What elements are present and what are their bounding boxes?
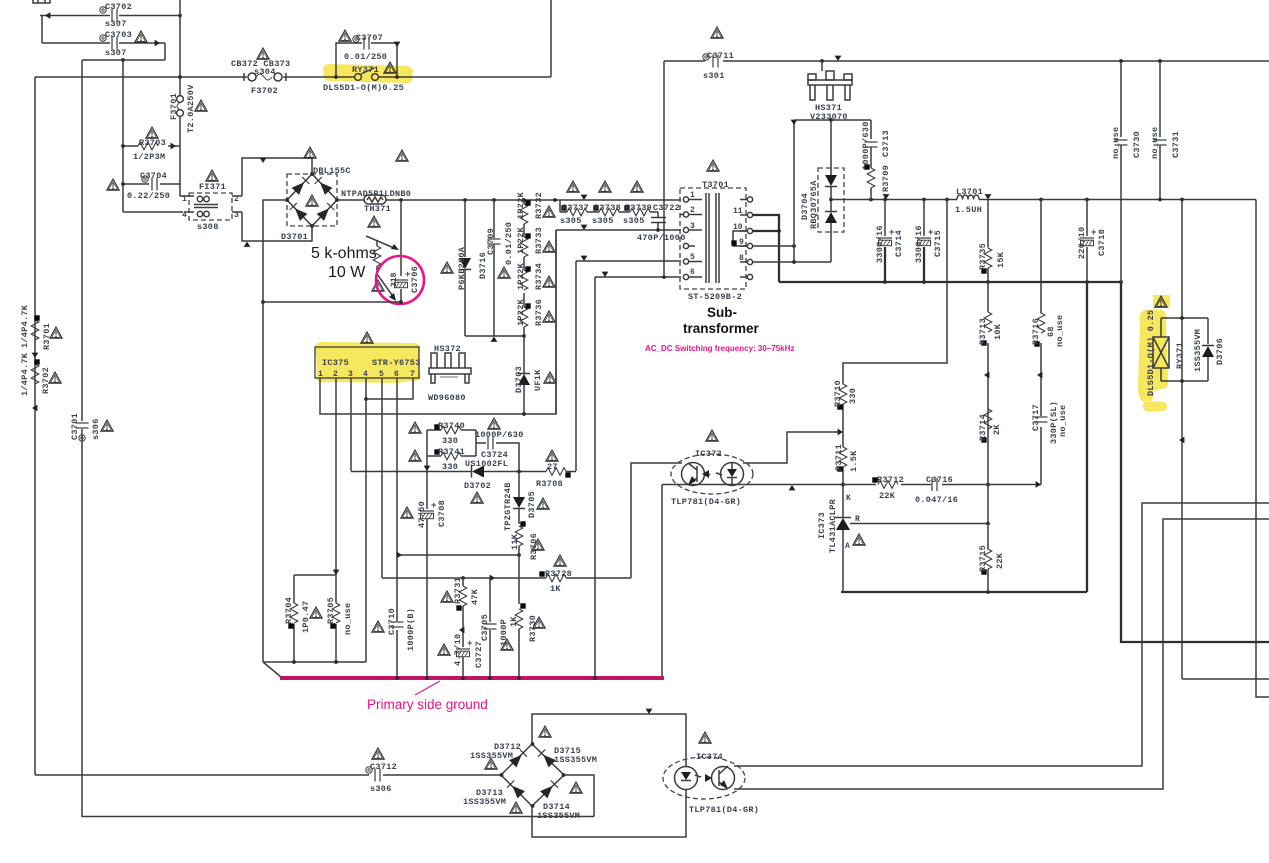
svg-text:s306: s306 (91, 418, 101, 440)
diode D3706 1SS355VM (1202, 346, 1214, 357)
svg-text:RY371: RY371 (1175, 342, 1185, 369)
wire bridge DC- to x263 rail down (263, 200, 287, 662)
wire bridge2 top loop y714 (532, 714, 686, 767)
svg-text:s305: s305 (560, 216, 582, 226)
svg-text:C3707: C3707 (356, 33, 383, 43)
wire y775 to C3712 (35, 774, 501, 776)
capacitor C3730 no_use (1120, 61, 1122, 137)
svg-text:TH371: TH371 (364, 204, 391, 214)
capacitor C3718 (1086, 200, 1088, 283)
wire pin11 pin10 to thick rail (753, 215, 779, 282)
svg-text:R3737: R3737 (562, 203, 589, 213)
svg-text:C3708: C3708 (437, 500, 447, 527)
svg-text:FI371: FI371 (199, 182, 226, 192)
svg-text:R3733: R3733 (534, 227, 544, 254)
svg-text:7: 7 (410, 370, 415, 379)
fuse F3701 (177, 96, 184, 117)
svg-text:no_use: no_use (1111, 127, 1121, 159)
capacitor C3727 (456, 639, 472, 657)
svg-text:C3716: C3716 (926, 475, 953, 485)
svg-text:TLP781(D4-GR): TLP781(D4-GR) (689, 805, 759, 815)
wire relay out y679 (1182, 678, 1269, 680)
svg-text:8: 8 (739, 254, 744, 263)
resistor R3740 (427, 429, 476, 431)
capacitor C3708 (426, 472, 428, 679)
svg-text:R3739: R3739 (625, 203, 652, 213)
capacitor C3731 no_use (1159, 61, 1161, 199)
svg-text:1/4P4.7K: 1/4P4.7K (20, 304, 30, 348)
svg-text:R3728: R3728 (545, 569, 572, 579)
wire y302 (263, 301, 401, 303)
svg-text:NTPAD5R1LDNB0: NTPAD5R1LDNB0 (341, 189, 411, 199)
svg-text:1/4P4.7K: 1/4P4.7K (20, 352, 30, 396)
svg-text:IC373: IC373 (817, 512, 827, 539)
svg-text:US1002FL: US1002FL (465, 459, 508, 469)
svg-text:1SS355VM: 1SS355VM (537, 811, 580, 821)
svg-text:TPZGTR24B: TPZGTR24B (503, 482, 513, 531)
heatsink HS371 (821, 61, 823, 71)
opto coupler IC374 TLP781 (663, 757, 745, 799)
svg-text:220/10: 220/10 (1077, 227, 1087, 259)
T3701 pin 1 (683, 197, 702, 202)
svg-text:C3701: C3701 (70, 413, 80, 440)
capacitor C3705 (489, 578, 491, 678)
capacitor C3722 (651, 218, 666, 223)
thermistor TH371 (337, 199, 681, 201)
resistor R3702 (31, 364, 39, 384)
svg-text:C3715: C3715 (933, 230, 943, 257)
wire RY371 riser x551 (550, 0, 552, 77)
svg-text:R3711: R3711 (834, 444, 844, 471)
svg-text:V233070: V233070 (810, 112, 848, 122)
svg-text:D3705: D3705 (527, 491, 537, 518)
resistor R3715 (987, 485, 989, 593)
svg-text:IC372: IC372 (695, 449, 722, 459)
svg-text:R3702: R3702 (41, 367, 51, 394)
svg-text:R3731: R3731 (453, 577, 463, 604)
svg-text:470P/1000: 470P/1000 (637, 233, 686, 243)
svg-text:4: 4 (182, 211, 187, 220)
wire R3710 tap x947 (843, 200, 947, 385)
svg-text:C3722: C3722 (653, 203, 680, 213)
svg-text:C3727: C3727 (474, 641, 484, 668)
svg-text:K: K (846, 494, 851, 503)
T3701 pin 6 (683, 274, 702, 279)
wire rail corner x1256 (1256, 200, 1269, 698)
svg-text:1000P/630: 1000P/630 (475, 430, 524, 440)
svg-text:s308: s308 (197, 222, 219, 232)
svg-text:IC374: IC374 (696, 752, 723, 762)
wire pin3 line y230 (556, 230, 681, 414)
svg-text:D3703: D3703 (514, 366, 524, 393)
svg-text:D3702: D3702 (464, 481, 491, 491)
svg-text:s301: s301 (703, 71, 725, 81)
highlight IC375 yellow marker (315, 342, 421, 383)
svg-text:no_use: no_use (343, 603, 353, 635)
svg-text:1.5K: 1.5K (849, 450, 859, 472)
wire IC375 pin4 (365, 378, 367, 662)
wire top rail y61 from pin6 riser (664, 61, 1269, 277)
svg-text:AC_DC Switching frequency: 30–: AC_DC Switching frequency: 30–75kHz (645, 344, 794, 353)
svg-text:R3712: R3712 (877, 475, 904, 485)
highlight RY371 top yellow marker (323, 64, 413, 83)
svg-text:R3716: R3716 (1031, 318, 1041, 345)
capacitor C3715 (923, 200, 925, 237)
resistor chain R3732 R3733 R3734 R3736 (523, 200, 525, 336)
wire C3730 out y642 (1121, 282, 1269, 642)
svg-text:R3734: R3734 (534, 263, 544, 290)
resistor R3731 (462, 578, 464, 647)
svg-text:T3701: T3701 (702, 180, 729, 190)
relay coil RY371 (1181, 200, 1183, 680)
wire C3706 branch (400, 200, 402, 302)
svg-text:C3702: C3702 (105, 2, 132, 12)
svg-text:R3740: R3740 (438, 421, 465, 431)
resistor R3735 (987, 200, 989, 283)
wire pin6 line y277 (595, 277, 681, 678)
svg-text:1SS355VM: 1SS355VM (463, 797, 506, 807)
svg-text:STR-Y6753: STR-Y6753 (372, 358, 421, 368)
wire y816 (82, 816, 594, 818)
wire y120 (794, 119, 871, 121)
svg-text:1SS355VM: 1SS355VM (554, 755, 597, 765)
svg-text:R3703: R3703 (139, 138, 166, 148)
capacitor C3704 (123, 183, 180, 185)
svg-text:11: 11 (733, 207, 743, 216)
svg-text:R3732: R3732 (534, 192, 544, 219)
svg-text:R3714: R3714 (978, 414, 988, 441)
svg-text:4: 4 (363, 370, 368, 379)
heatsink HS372 (429, 353, 471, 383)
svg-text:D3716: D3716 (478, 252, 488, 279)
capacitor C3713 (870, 120, 872, 168)
svg-text:R3741: R3741 (438, 447, 465, 457)
wire IC372 emitter down to ground bar (661, 485, 663, 678)
svg-text:5: 5 (690, 253, 695, 262)
resistor R3728 (546, 574, 566, 582)
wire pin8 (753, 261, 831, 263)
svg-text:1P22K: 1P22K (516, 226, 526, 254)
svg-text:47K: 47K (470, 588, 480, 605)
svg-text:318: 318 (390, 272, 399, 287)
svg-text:R3713: R3713 (978, 318, 988, 345)
jumper pins 9-10 (733, 231, 747, 246)
svg-text:1000P(B): 1000P(B) (406, 608, 416, 651)
svg-text:R3705: R3705 (326, 597, 336, 624)
resistor R3706 (515, 526, 523, 546)
ic IC375 STR-Y6753 (315, 347, 419, 378)
svg-text:ST-5209B-2: ST-5209B-2 (688, 292, 742, 302)
svg-text:1P22K: 1P22K (516, 191, 526, 219)
svg-text:5: 5 (379, 370, 384, 379)
capacitor C3709 (493, 200, 495, 336)
svg-text:s307: s307 (105, 48, 127, 58)
svg-text:2: 2 (333, 370, 338, 379)
svg-text:Primary side ground: Primary side ground (367, 697, 488, 712)
capacitor C3717 no_use (1035, 417, 1048, 422)
svg-text:5 k-ohms: 5 k-ohms (311, 245, 377, 262)
svg-text:DLS5D1-O(M)0.25: DLS5D1-O(M)0.25 (323, 83, 404, 93)
diode D3702 US1002FL (351, 471, 546, 473)
svg-text:C3710: C3710 (387, 608, 397, 635)
wire pin5 line y261 (576, 261, 681, 471)
svg-text:0.01/250: 0.01/250 (504, 222, 514, 265)
svg-text:1: 1 (318, 370, 323, 379)
svg-text:10 W: 10 W (328, 264, 366, 281)
wire IC374 transistor collector out (734, 503, 1269, 766)
wire IC375 pin6 (396, 378, 398, 678)
svg-text:330: 330 (442, 436, 458, 446)
svg-text:DLS5D1-O(M) 0.25: DLS5D1-O(M) 0.25 (1146, 310, 1156, 396)
warning C3703 (135, 31, 147, 42)
wire AC main y77 (35, 0, 551, 775)
resistor R3703 (123, 145, 180, 147)
svg-text:C3706: C3706 (410, 266, 420, 293)
T3701 pin 5 (683, 259, 702, 264)
svg-text:R: R (855, 515, 860, 524)
svg-text:HS372: HS372 (434, 344, 461, 354)
svg-text:C3713: C3713 (881, 130, 891, 157)
wire FI371 pin3 to bridge AC2 (242, 212, 312, 241)
resistor R3708 (546, 468, 566, 476)
thick rail y282 (779, 281, 1121, 283)
line filter FI371 (189, 193, 232, 220)
capacitor C3702 (112, 9, 117, 22)
capacitor C3706 electrolytic (394, 270, 410, 288)
wire pin9 (753, 245, 794, 247)
svg-text:Sub-: Sub- (707, 305, 737, 320)
wire top C3702 line (40, 15, 180, 17)
wire feedback box right x1087 (841, 282, 1087, 592)
svg-text:22K: 22K (995, 552, 1005, 569)
svg-text:1: 1 (690, 191, 695, 200)
svg-text:R3715: R3715 (978, 545, 988, 572)
svg-text:330: 330 (848, 388, 858, 404)
wire IC375 pin5 (381, 378, 383, 578)
svg-text:R3710: R3710 (833, 380, 843, 407)
wire IC375 pin7 to pin4 (366, 378, 413, 399)
svg-text:15K: 15K (996, 251, 1006, 268)
wire y336 chain bottom (465, 335, 525, 337)
wire FI371 input (123, 196, 184, 212)
T3701 pin 3 (683, 227, 702, 232)
wire TL431 ref y523 (850, 523, 988, 525)
svg-text:1P22K: 1P22K (516, 298, 526, 326)
diode D3705 TPZGTR24B (518, 472, 520, 525)
resistor R3710 (839, 384, 847, 404)
svg-text:2: 2 (690, 206, 695, 215)
svg-text:T2.0A250V: T2.0A250V (186, 84, 196, 133)
bridge rectifier D3712-D3715 (501, 744, 564, 806)
primary side ground bar (280, 676, 664, 680)
svg-text:P6KE200A: P6KE200A (457, 246, 467, 290)
resistor R3705 no_use (335, 575, 337, 662)
svg-text:27: 27 (547, 462, 558, 472)
svg-text:C3704: C3704 (140, 171, 167, 181)
resistor R3716 no_use (1040, 200, 1042, 485)
wire D3704 anode feed x794 (793, 120, 795, 262)
svg-text:0.047/16: 0.047/16 (915, 495, 958, 505)
svg-text:C3730: C3730 (1132, 131, 1142, 158)
wire feedback y578 R3728 line (382, 577, 631, 579)
svg-text:1: 1 (182, 195, 187, 204)
capacitor C3712 (375, 769, 380, 782)
svg-text:2K: 2K (992, 424, 1002, 435)
svg-text:s305: s305 (592, 216, 614, 226)
wire C3703 line (42, 16, 165, 61)
snubber R3737 R3738 R3739 C3722 (560, 200, 658, 217)
shunt regulator IC373 TL431ACLPR (842, 485, 844, 593)
svg-text:TLP781(D4-GR): TLP781(D4-GR) (671, 497, 741, 507)
svg-text:C3717: C3717 (1031, 404, 1041, 431)
svg-text:WD96080: WD96080 (428, 393, 466, 403)
svg-text:C3711: C3711 (707, 51, 734, 61)
capacitor C3703 (112, 37, 117, 50)
svg-text:4.7/10: 4.7/10 (453, 634, 463, 666)
svg-text:D3701: D3701 (281, 232, 308, 242)
resistor R3709 (867, 168, 875, 188)
svg-text:A: A (845, 542, 850, 551)
svg-text:RY371: RY371 (352, 65, 379, 75)
T3701 pin nc left (683, 243, 695, 248)
transformer T3701 (680, 188, 746, 289)
svg-text:R3709: R3709 (881, 165, 891, 192)
svg-text:F3702: F3702 (251, 86, 278, 96)
svg-text:C3712: C3712 (370, 762, 397, 772)
svg-text:3: 3 (234, 211, 239, 220)
misc connector top left (33, 0, 50, 3)
svg-text:R3735: R3735 (978, 243, 988, 270)
svg-text:6: 6 (394, 370, 399, 379)
svg-text:IC375: IC375 (322, 358, 349, 368)
wire IC372 collector net (631, 463, 682, 578)
wire IC374 transistor emitter out (734, 519, 1269, 789)
svg-text:s306: s306 (370, 784, 392, 794)
resistor R3704 (294, 575, 336, 662)
svg-text:TL431ACLPR: TL431ACLPR (828, 498, 838, 553)
resistor R3730 (518, 555, 520, 678)
svg-text:no_use: no_use (1058, 405, 1068, 437)
opto coupler IC372 TLP781 (671, 454, 753, 494)
svg-text:10K: 10K (993, 323, 1003, 340)
wire bridge2 bottom loop y837 (532, 789, 686, 837)
svg-text:R3704: R3704 (284, 597, 294, 624)
svg-text:L3701: L3701 (956, 187, 983, 197)
warning F3702 (257, 48, 269, 59)
svg-text:R3738: R3738 (594, 203, 621, 213)
svg-text:0.22/250: 0.22/250 (127, 191, 170, 201)
svg-text:D3706: D3706 (1215, 338, 1225, 365)
wire IC375 pin1 net y414 (320, 230, 556, 414)
resistor R3701 (31, 320, 39, 340)
dual diode D3704 RBQ30765A (818, 168, 844, 232)
capacitor C3710 (391, 622, 404, 627)
svg-text:3: 3 (348, 370, 353, 379)
wire IC375 pin2 (335, 378, 337, 575)
wire IC372 led anode from R3710/R3711 node (743, 432, 838, 463)
svg-text:1SS355VM: 1SS355VM (1193, 329, 1203, 372)
svg-text:no_use: no_use (1150, 127, 1160, 159)
inductor L3701 (957, 195, 979, 200)
diode D3716 P6KE200A (464, 200, 466, 336)
svg-text:R3708: R3708 (536, 479, 563, 489)
relay contact RY371 (355, 68, 379, 80)
svg-text:1K: 1K (550, 584, 561, 594)
svg-text:1P0.47: 1P0.47 (301, 601, 311, 633)
svg-text:UF1K: UF1K (533, 369, 543, 391)
svg-text:22K: 22K (879, 491, 896, 501)
svg-text:6: 6 (690, 268, 695, 277)
wire bridge2 right to y816 box (564, 775, 594, 817)
svg-text:1K: 1K (509, 616, 519, 627)
svg-text:F3701: F3701 (169, 93, 179, 120)
wire FI371 pin2 to bridge AC1 (242, 158, 312, 196)
svg-text:DBL155C: DBL155C (313, 166, 351, 176)
capacitor C3714 (884, 200, 886, 237)
resistor R3714 (984, 409, 992, 429)
T3701 right pins (740, 197, 753, 202)
svg-text:3: 3 (690, 222, 695, 231)
magenta circle highlight C3706 (376, 256, 424, 304)
capacitor C3701 (81, 60, 83, 817)
resistor R3712 (878, 481, 898, 489)
capacitor C3724 (476, 443, 519, 472)
T3701 pin 2 (681, 212, 702, 217)
svg-text:C3718: C3718 (1097, 229, 1107, 256)
svg-text:3300/16: 3300/16 (875, 225, 885, 263)
svg-text:C3709: C3709 (486, 228, 496, 255)
highlight DLS5D1 relay yellow marker (1138, 295, 1170, 412)
resistor R3741 (427, 430, 476, 471)
resistor R3713 (987, 282, 989, 485)
bridge rectifier D3701 DBL155C (287, 174, 337, 226)
wire feedback y484 (662, 484, 1041, 486)
wire y555 pin6 to R3706 (397, 554, 519, 556)
svg-text:s307: s307 (105, 19, 127, 29)
svg-text:C3731: C3731 (1171, 131, 1181, 158)
capacitor C3707 bypass (336, 43, 397, 77)
fuse F3702 (244, 73, 286, 81)
adjustable resistor 5k-ohms 10W (376, 240, 378, 274)
svg-text:C3703: C3703 (105, 30, 132, 40)
svg-text:2: 2 (234, 195, 239, 204)
diode D3703 UF1K (523, 336, 525, 414)
svg-text:C3714: C3714 (894, 230, 904, 257)
label primary side ground (415, 681, 440, 695)
resistor R3711 (839, 447, 847, 467)
svg-text:0.01/250: 0.01/250 (344, 52, 387, 62)
svg-text:47/50: 47/50 (417, 501, 427, 528)
svg-text:C3705: C3705 (480, 614, 490, 641)
svg-text:11K: 11K (510, 533, 520, 550)
capacitor C3711 (713, 55, 718, 68)
junction dots misc (792, 260, 796, 264)
svg-text:1000P/630: 1000P/630 (861, 121, 871, 170)
capacitor C3716 (932, 478, 937, 491)
svg-text:1.5UH: 1.5UH (955, 205, 982, 215)
wire y662 return (263, 661, 366, 663)
svg-text:1P22K: 1P22K (516, 262, 526, 290)
svg-text:3300/16: 3300/16 (914, 225, 924, 263)
wire IC375 pin3 (350, 378, 352, 471)
svg-text:s304: s304 (254, 67, 276, 77)
svg-text:transformer: transformer (683, 321, 760, 336)
svg-text:1/2P3M: 1/2P3M (133, 152, 165, 162)
svg-text:330: 330 (442, 462, 458, 472)
svg-text:RBQ30765A: RBQ30765A (809, 180, 819, 229)
svg-text:no_use: no_use (1055, 315, 1065, 347)
wire secondary rail y199 (831, 199, 1256, 201)
